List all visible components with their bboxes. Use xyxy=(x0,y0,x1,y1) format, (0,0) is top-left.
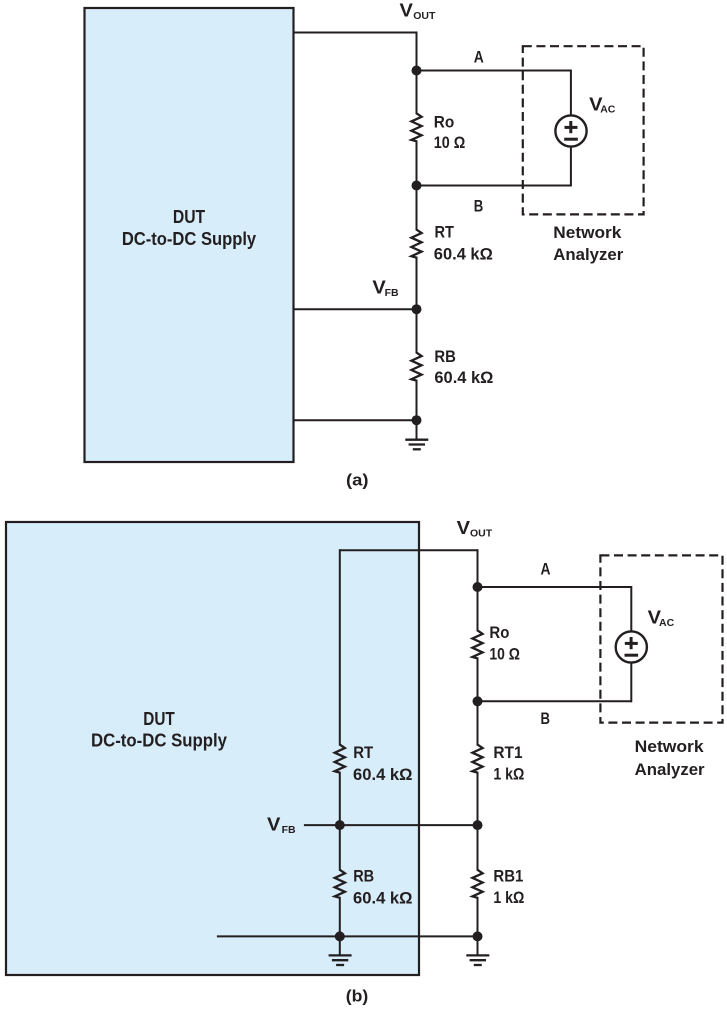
Ro value label (b) xyxy=(489,623,520,664)
wire VFB (b) xyxy=(304,824,478,826)
RB value label (b) xyxy=(353,867,413,908)
svg-text:DC-to-DC Supply: DC-to-DC Supply xyxy=(122,229,256,249)
resistor RT (a) xyxy=(411,230,421,258)
svg-text:RT: RT xyxy=(353,743,374,762)
svg-text:Network: Network xyxy=(553,223,622,242)
wire Ro to RT (a) xyxy=(416,140,418,230)
node A junction dot (b) xyxy=(473,582,483,592)
svg-text:Ro: Ro xyxy=(434,113,455,132)
RT value label (a) xyxy=(434,223,493,264)
svg-text:1 kΩ: 1 kΩ xyxy=(493,888,524,907)
svg-text:DUT: DUT xyxy=(143,709,175,729)
svg-text:DC-to-DC Supply: DC-to-DC Supply xyxy=(91,730,227,750)
node VFB junction dot outer (b) xyxy=(473,820,483,830)
wire RT1 to RB1 (b) xyxy=(477,772,479,871)
resistor Ro (a) xyxy=(411,113,421,141)
wire RB1 to ground (b) xyxy=(477,897,479,956)
VAC source U1 (a) xyxy=(555,115,586,146)
resistor RT inside DUT (b) xyxy=(335,745,345,773)
svg-text:B: B xyxy=(541,709,551,728)
svg-text:Ro: Ro xyxy=(489,623,509,642)
VFB label (b) xyxy=(267,814,296,836)
DUT block (a) xyxy=(85,8,294,462)
svg-text:Analyzer: Analyzer xyxy=(635,760,705,779)
wire node A to analyzer (a) xyxy=(417,70,571,117)
svg-text:FB: FB xyxy=(282,824,296,836)
network analyzer dashed box (a) xyxy=(523,46,644,214)
VAC source U1 (b) xyxy=(616,631,647,662)
RB1 value label (b) xyxy=(493,867,524,908)
svg-text:(a): (a) xyxy=(346,471,369,490)
DUT block (b) xyxy=(6,522,419,975)
node VFB junction dot inner (b) xyxy=(335,820,345,830)
node bottom junction dot outer (b) xyxy=(473,931,483,941)
network analyzer dashed box (b) xyxy=(600,555,722,722)
RT1 value label (b) xyxy=(493,743,524,784)
svg-text:60.4 kΩ: 60.4 kΩ xyxy=(353,765,413,784)
svg-text:A: A xyxy=(474,48,484,67)
svg-text:AC: AC xyxy=(600,104,616,116)
svg-text:RT1: RT1 xyxy=(493,743,522,762)
network analyzer caption (b) xyxy=(635,737,705,779)
svg-text:60.4 kΩ: 60.4 kΩ xyxy=(353,889,413,908)
wire VOUT vertical to node A (b) xyxy=(477,549,479,631)
wire inner divider vertical (b) xyxy=(339,549,341,745)
wire node A to analyzer (b) xyxy=(478,586,632,632)
svg-text:OUT: OUT xyxy=(470,528,493,540)
wire VFB (a) xyxy=(295,308,417,310)
svg-text:DUT: DUT xyxy=(173,207,205,227)
wire VOUT horizontal (a) xyxy=(295,32,417,34)
wire Ro to RT1 (b) xyxy=(477,657,479,745)
wire bottom return (a) xyxy=(295,419,417,421)
svg-text:RB1: RB1 xyxy=(493,867,523,886)
svg-text:RB: RB xyxy=(434,347,456,366)
resistor Ro (b) xyxy=(472,630,482,658)
resistor RB (a) xyxy=(411,353,421,381)
RB value label (a) xyxy=(434,347,493,387)
Ro value label (a) xyxy=(434,113,466,153)
svg-text:60.4 kΩ: 60.4 kΩ xyxy=(434,245,493,264)
svg-text:A: A xyxy=(541,560,551,579)
wire VOUT vertical to node A (a) xyxy=(416,32,418,115)
svg-text:AC: AC xyxy=(659,617,675,629)
resistor RB inside DUT (b) xyxy=(335,870,345,898)
svg-text:60.4 kΩ: 60.4 kΩ xyxy=(434,368,493,387)
wire RT to RB (a) xyxy=(416,257,418,354)
VFB label (a) xyxy=(372,278,399,299)
node VOUT label (b) xyxy=(457,518,493,539)
svg-text:OUT: OUT xyxy=(413,10,436,22)
node B junction dot (a) xyxy=(412,181,422,191)
wire RB to ground (a) xyxy=(416,380,418,440)
svg-text:Analyzer: Analyzer xyxy=(553,245,623,264)
ground outer (b) xyxy=(466,955,489,965)
node VOUT label (a) xyxy=(400,1,436,22)
node VFB junction dot (a) xyxy=(412,304,422,314)
svg-text:10 Ω: 10 Ω xyxy=(489,645,520,664)
node B junction dot (b) xyxy=(473,696,483,706)
svg-text:B: B xyxy=(474,197,484,216)
RT value label (b) xyxy=(353,743,413,784)
node bottom junction dot (a) xyxy=(412,415,422,425)
VAC label (a) xyxy=(589,95,616,116)
wire bottom return (b) xyxy=(217,935,478,937)
svg-text:FB: FB xyxy=(385,287,399,299)
network analyzer caption (a) xyxy=(553,223,623,264)
resistor RT1 (b) xyxy=(472,745,482,773)
wire VOUT horizontal (b) xyxy=(340,549,478,551)
resistor RB1 (b) xyxy=(472,870,482,898)
ground (a) xyxy=(405,440,428,450)
node A junction dot (a) xyxy=(412,66,422,76)
node bottom junction dot inner (b) xyxy=(335,931,345,941)
svg-text:1 kΩ: 1 kΩ xyxy=(493,764,524,783)
wire node B to analyzer (a) xyxy=(417,146,571,187)
wire node B to analyzer (b) xyxy=(478,662,632,703)
wire RB to ground (b) xyxy=(339,897,341,956)
svg-text:10 Ω: 10 Ω xyxy=(434,133,466,152)
VAC label (b) xyxy=(648,608,675,630)
wire RT to RB (b) xyxy=(339,772,341,871)
svg-text:V: V xyxy=(400,1,413,21)
svg-text:V: V xyxy=(457,518,470,538)
svg-text:RB: RB xyxy=(353,867,374,886)
svg-text:V: V xyxy=(267,814,280,834)
ground inner (b) xyxy=(329,955,352,965)
svg-text:(b): (b) xyxy=(346,987,369,1006)
svg-text:RT: RT xyxy=(435,223,455,242)
svg-text:Network: Network xyxy=(635,737,705,756)
